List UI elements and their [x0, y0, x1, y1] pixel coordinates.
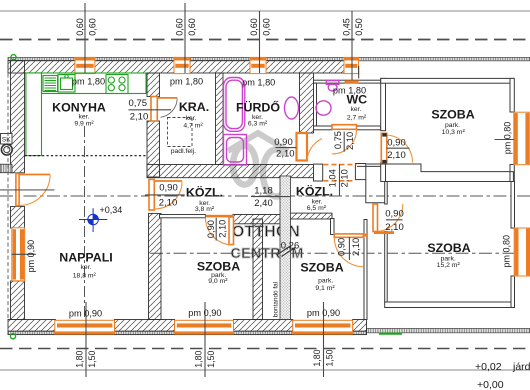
svg-text:+0,00: +0,00	[477, 379, 504, 390]
svg-text:0,60: 0,60	[174, 18, 184, 36]
svg-text:pm 0,90: pm 0,90	[69, 309, 102, 319]
svg-text:10,3 m²: 10,3 m²	[442, 129, 466, 136]
svg-text:0,50: 0,50	[354, 18, 364, 36]
svg-text:6,3 m²: 6,3 m²	[248, 120, 268, 127]
svg-text:SZOBA: SZOBA	[431, 107, 474, 121]
svg-text:2,10: 2,10	[385, 222, 404, 233]
svg-text:pm 0,90: pm 0,90	[307, 308, 340, 318]
svg-text:pm 1,80: pm 1,80	[242, 78, 275, 88]
svg-text:+0,02: +0,02	[475, 361, 502, 373]
svg-text:0,90: 0,90	[159, 182, 178, 193]
svg-text:1,50: 1,50	[325, 349, 335, 366]
svg-text:ker.: ker.	[81, 264, 92, 271]
svg-text:pm 0,80: pm 0,80	[501, 235, 511, 268]
svg-text:0,60: 0,60	[187, 18, 197, 36]
svg-text:2,10: 2,10	[345, 132, 355, 150]
svg-text:SK: SK	[2, 137, 11, 144]
svg-text:ker.: ker.	[186, 115, 197, 122]
svg-text:0,75: 0,75	[129, 98, 148, 109]
svg-text:pm 0,80: pm 0,80	[503, 122, 513, 155]
svg-text:2,10: 2,10	[276, 149, 295, 160]
svg-text:2,10: 2,10	[340, 169, 350, 187]
svg-text:0,60: 0,60	[75, 18, 85, 36]
svg-text:ker.: ker.	[351, 106, 362, 113]
svg-text:3,8 m²: 3,8 m²	[195, 206, 215, 213]
svg-text:1,50: 1,50	[87, 351, 97, 368]
svg-text:2,7 m²: 2,7 m²	[347, 115, 367, 122]
svg-text:pm 1,80: pm 1,80	[170, 77, 203, 87]
svg-text:2,10: 2,10	[217, 220, 227, 238]
svg-text:2,40: 2,40	[254, 198, 273, 209]
svg-text:1,04: 1,04	[328, 169, 338, 187]
svg-text:park.: park.	[318, 277, 333, 284]
svg-text:1,80: 1,80	[312, 349, 322, 366]
svg-text:9,1 m²: 9,1 m²	[315, 285, 335, 292]
svg-text:0,45: 0,45	[341, 18, 351, 36]
svg-text:9,0 m²: 9,0 m²	[208, 278, 228, 285]
svg-text:2,10: 2,10	[159, 198, 178, 209]
svg-text:15,2 m²: 15,2 m²	[437, 262, 461, 269]
svg-text:0,90: 0,90	[336, 238, 346, 256]
svg-text:padl.felj.: padl.felj.	[171, 148, 196, 155]
svg-text:bontandó fal: bontandó fal	[273, 282, 280, 317]
svg-text:0,60: 0,60	[249, 18, 259, 36]
svg-text:SZOBA: SZOBA	[427, 241, 470, 255]
svg-text:pm 1,80: pm 1,80	[72, 77, 105, 87]
svg-text:4,7 m²: 4,7 m²	[183, 122, 203, 129]
svg-text:2,10: 2,10	[130, 111, 149, 122]
svg-text:KRA.: KRA.	[179, 100, 209, 114]
svg-text:KÖZL.: KÖZL.	[186, 184, 223, 199]
svg-text:+0,34: +0,34	[100, 205, 123, 215]
svg-text:pm 1,80: pm 1,80	[333, 86, 366, 96]
svg-text:pm 0,90: pm 0,90	[188, 308, 221, 318]
svg-text:pm 0,90: pm 0,90	[26, 240, 36, 273]
svg-text:2,10: 2,10	[351, 238, 361, 256]
svg-text:0,90: 0,90	[274, 137, 293, 148]
svg-text:járda: járda	[512, 361, 530, 373]
svg-text:1,50: 1,50	[206, 351, 216, 368]
svg-text:18,8 m²: 18,8 m²	[73, 272, 97, 279]
svg-text:KONYHA: KONYHA	[52, 101, 106, 115]
svg-text:1,80: 1,80	[75, 351, 85, 368]
svg-text:0,90: 0,90	[387, 137, 406, 148]
svg-text:0,75: 0,75	[333, 131, 343, 149]
svg-text:0,60: 0,60	[87, 18, 97, 36]
svg-text:9,9 m²: 9,9 m²	[74, 120, 94, 127]
svg-text:FÜRDŐ: FÜRDŐ	[236, 100, 280, 115]
svg-text:2,10: 2,10	[387, 150, 406, 161]
svg-text:1,18: 1,18	[254, 186, 273, 197]
svg-text:1,80: 1,80	[194, 351, 204, 368]
svg-text:SZOBA: SZOBA	[300, 261, 343, 275]
svg-text:0,90: 0,90	[385, 208, 404, 219]
svg-text:0,90: 0,90	[206, 220, 216, 238]
svg-text:park.: park.	[445, 122, 460, 129]
svg-text:NAPPALI: NAPPALI	[59, 250, 112, 264]
svg-text:6,5 m²: 6,5 m²	[307, 205, 327, 212]
svg-text:0,60: 0,60	[261, 18, 271, 36]
